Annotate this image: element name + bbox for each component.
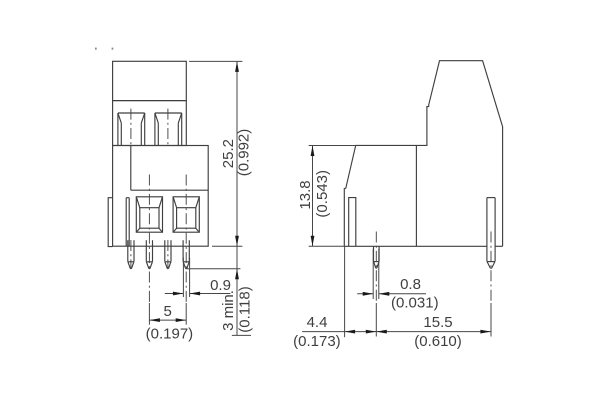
svg-text:25.2: 25.2 [220, 139, 237, 168]
svg-text:(0.992): (0.992) [236, 129, 253, 177]
svg-text:5: 5 [164, 303, 172, 320]
svg-text:0.8: 0.8 [400, 276, 421, 293]
svg-text:(0.197): (0.197) [146, 326, 194, 343]
svg-text:(0.610): (0.610) [414, 333, 462, 350]
svg-text:15.5: 15.5 [423, 314, 452, 331]
svg-text:13.8: 13.8 [297, 180, 314, 209]
svg-text:4.4: 4.4 [307, 314, 328, 331]
svg-text:(0.031): (0.031) [391, 295, 439, 312]
svg-text:(0.118): (0.118) [237, 286, 254, 332]
svg-text:(0.543): (0.543) [314, 170, 331, 218]
svg-text:(0.173): (0.173) [293, 333, 341, 350]
svg-text:3 min.: 3 min. [220, 290, 237, 331]
